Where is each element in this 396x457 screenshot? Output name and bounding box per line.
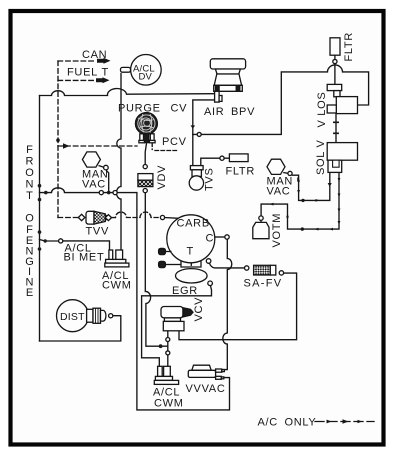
- svg-text:VAC: VAC: [82, 179, 106, 191]
- valve AIR BPV: [210, 59, 245, 102]
- wire: SOL V stub A to MAN VAC right: [291, 173, 330, 201]
- svg-text:C: C: [206, 233, 215, 245]
- svg-text:VOTM: VOTM: [271, 213, 283, 248]
- arrow: CAN pointer: [97, 58, 111, 64]
- svg-text:TVS: TVS: [204, 168, 216, 192]
- node: circle on junction line: [197, 132, 201, 136]
- heat riser A/CL CWM lower: [154, 366, 178, 384]
- svg-text:VVVAC: VVVAC: [186, 383, 226, 395]
- wire: VCV drop to lower CWM right stub: [167, 331, 169, 367]
- svg-text:CARB: CARB: [177, 218, 210, 230]
- svg-text:BI MET: BI MET: [64, 252, 105, 264]
- wire: purge valve left leg to VDV: [145, 143, 146, 165]
- valve SA-FV: [245, 265, 284, 275]
- junction dot on VCV joining line: [159, 344, 163, 348]
- svg-text:PURGE: PURGE: [118, 103, 161, 115]
- wire: junction corner to right riser and top run to SOL V: [193, 65, 369, 134]
- svg-text:DV: DV: [139, 72, 153, 83]
- svg-text:T: T: [26, 190, 33, 202]
- distributor DIST: [57, 300, 113, 332]
- wire: top horizontal from bus to AIR BPV: [40, 89, 215, 96]
- hexagon MAN VAC right: [267, 159, 292, 175]
- svg-text:F: F: [26, 144, 33, 156]
- svg-text:SOL V: SOL V: [315, 140, 327, 176]
- svg-text:EGR: EGR: [172, 285, 198, 297]
- dot: stub B corner: [301, 227, 304, 230]
- svg-text:N: N: [26, 179, 34, 191]
- heat riser A/CL CWM upper: [105, 250, 129, 267]
- svg-text:R: R: [26, 156, 34, 168]
- arrow: TVS line down tick: [191, 125, 196, 128]
- wire: A/CL DV drop to upper A/CL CWM right stub: [116, 74, 121, 251]
- filter FLTR (top right): [330, 38, 340, 55]
- wire: TVS cap riser to FLTR: [201, 158, 230, 166]
- svg-text:FLTR: FLTR: [226, 166, 255, 178]
- label FRONT OF ENGINE (vertical): [25, 144, 34, 299]
- carburetor side fittings: [159, 248, 181, 267]
- junction dot on dashed riser: [56, 138, 60, 142]
- wire: EGR branch down to lower CWM left stub: [142, 285, 212, 366]
- svg-text:PCV: PCV: [162, 136, 187, 148]
- wire: A/C ONLY legend line: [315, 421, 374, 423]
- switch TVS: [189, 166, 203, 191]
- arrows and flow ticks: [56, 58, 362, 424]
- wire: AIR BPV lower port left-down to TVS: [193, 100, 215, 165]
- wire: CARB C port to circle: [215, 236, 225, 238]
- node: beads on VCV drop: [166, 338, 170, 355]
- wire: manifold line y=192.6 from bus, down line A to bottom box: [40, 188, 230, 410]
- node: circle under FLTR: [333, 59, 337, 63]
- wire: CAN dashed: [58, 60, 96, 62]
- svg-text:CWM: CWM: [102, 280, 132, 292]
- wire: DIST return to bus: [40, 316, 121, 341]
- wire: C circle drop to VVVAC upper stub: [223, 239, 232, 369]
- motor VOTM: [253, 216, 269, 239]
- wire: A/CL BI MET branch from bus to upper CWM left stub: [40, 240, 110, 251]
- ticks: stub B path: [269, 178, 340, 230]
- svg-text:AIR: AIR: [204, 106, 224, 118]
- wire: TVV circle to CARB edge: [165, 217, 181, 220]
- svg-text:FUEL: FUEL: [67, 67, 98, 79]
- motor VVVAC: [188, 365, 224, 379]
- dot: stub A corner: [301, 199, 304, 202]
- wire: PCV dashed stub right of purge legs: [152, 143, 177, 151]
- ticks: stub A path: [297, 177, 332, 201]
- valve A/CL DV: [121, 55, 162, 86]
- svg-text:VCV: VCV: [193, 297, 205, 322]
- svg-text:T: T: [187, 246, 194, 258]
- wire: PCV dashed from riser to purge valve: [58, 145, 137, 147]
- svg-text:CAN: CAN: [82, 49, 107, 61]
- solenoid SOL V upper: [327, 84, 357, 113]
- ticks: inter-SOL line: [333, 122, 339, 135]
- wire: MAN VAC left drop: [106, 170, 109, 193]
- node: connector circles on manifold line: [99, 191, 117, 195]
- svg-text:O: O: [25, 167, 34, 179]
- svg-text:ONLY: ONLY: [285, 417, 317, 429]
- wire: VDV line down to VCV joining line: [145, 193, 168, 347]
- arrow: PCV dashed pointer: [63, 143, 70, 149]
- wire: FLTR(top) down to upper SOL V: [334, 55, 336, 84]
- solenoid SOL V lower: [327, 143, 357, 173]
- svg-text:A/C: A/C: [258, 417, 278, 429]
- valve PURGE CV: [136, 113, 158, 143]
- svg-text:TVV: TVV: [86, 226, 110, 238]
- valve TVV: [78, 211, 111, 224]
- carburetor CARB: [160, 215, 229, 286]
- wire: TVV dashed to CARB: [112, 212, 160, 218]
- wire: CARB bottom port to SA-FV: [209, 263, 244, 268]
- filter FLTR (mid): [229, 154, 248, 162]
- svg-text:DIST: DIST: [60, 311, 85, 323]
- wire: dashed riser foot to TVV: [58, 217, 80, 219]
- svg-text:VDV: VDV: [156, 165, 168, 190]
- junction dots on bus: [38, 184, 111, 251]
- svg-text:V LOS: V LOS: [316, 92, 328, 128]
- wire: SA-FV return loop from VCV base: [179, 273, 297, 340]
- svg-text:CWM: CWM: [154, 398, 184, 410]
- wire: SOL V stub B to VOTM: [261, 173, 339, 230]
- node: circle before FLTR: [220, 156, 224, 160]
- wire: dashed vertical riser: [57, 61, 59, 218]
- svg-text:FLTR: FLTR: [343, 32, 355, 61]
- valve VDV: [138, 165, 153, 193]
- svg-text:VAC: VAC: [267, 186, 291, 198]
- svg-text:T: T: [102, 67, 109, 79]
- arrows: legend line: [327, 419, 363, 423]
- svg-text:O: O: [25, 213, 34, 225]
- valve VCV: [161, 307, 193, 331]
- wire: FUEL T dashed: [58, 79, 95, 81]
- svg-text:CV: CV: [171, 103, 188, 115]
- svg-text:E: E: [26, 287, 33, 299]
- svg-text:BPV: BPV: [231, 106, 255, 118]
- arrow: FUEL T pointer: [96, 77, 110, 83]
- hexagon MAN VAC left: [82, 152, 108, 170]
- wire: left main bus: [39, 96, 41, 342]
- svg-text:SA-FV: SA-FV: [244, 278, 283, 290]
- wire: between SOL valves (A/C only): [335, 114, 337, 143]
